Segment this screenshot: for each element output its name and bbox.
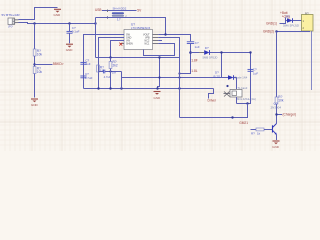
wire GND bus y88.5 [84, 88, 214, 90]
transistor Q1 [272, 125, 274, 132]
wire output net y52.5 to diode D1 [191, 52, 200, 54]
IC U1 right pins 5-8 [153, 35, 159, 44]
junction node (250.5,52.5) [249, 51, 251, 53]
junction node at C1 branch [68, 22, 70, 24]
svg-text:GND: GND [66, 48, 74, 52]
wire x159.5 vertical to GND bus [158, 58, 160, 89]
wire R6 to Q1 base [264, 129, 273, 131]
resistor R1 10k [33, 49, 36, 56]
junction node (179.5,88.5) [178, 87, 180, 89]
IC U1 left pins 1-4 [119, 35, 125, 44]
svg-text:R?: R? [251, 131, 255, 135]
wire base net [251, 129, 257, 131]
wire FB node to R4 [110, 58, 112, 62]
wire R5 to Q1 collector [276, 104, 278, 124]
svg-text:SH+V-DD2: SH+V-DD2 [113, 7, 127, 11]
inductor L2 body [230, 90, 242, 98]
wire y103.5 and x250.5 riser [237, 53, 251, 104]
diode D1 anode lead [199, 52, 204, 54]
svg-text:(Charger): (Charger) [283, 113, 297, 117]
svg-text:1.8L: 1.8L [191, 69, 197, 73]
wire IC pin6 stub [158, 40, 162, 42]
svg-text:2k2: 2k2 [113, 63, 118, 67]
inductor L1 body [112, 12, 124, 14]
IC U1 left pin names [126, 34, 133, 46]
svg-text:1M: 1M [100, 69, 105, 73]
wire x95.5 vertical [95, 18, 97, 58]
wire C1 to ground [69, 33, 71, 43]
wire IC pin5 U-loop [144, 44, 175, 56]
wire zener D2 branch [221, 53, 223, 78]
wire VOUT bus y77.5 [122, 77, 229, 79]
no-ERC cross on IC pin 4 [119, 43, 122, 46]
svg-text:GND: GND [272, 145, 280, 149]
junction node (165.5,34.5) [164, 33, 166, 35]
ground (C1) [66, 44, 73, 47]
junction node (110.5,88.5) [109, 87, 111, 89]
svg-text:4.7uF: 4.7uF [104, 75, 111, 79]
inductor L2 left lead [224, 93, 231, 95]
ground (divider) [31, 99, 38, 102]
wire IC pin3 west then south [111, 41, 125, 58]
svg-text:Driver: Driver [208, 99, 217, 103]
ground (mid GND bus) [154, 92, 161, 95]
svg-text:1uF: 1uF [195, 45, 200, 49]
capacitor C3 4.7uF on x83.5 [80, 75, 86, 77]
wire return loop y117.5 [180, 104, 248, 118]
svg-text:SHDN: SHDN [126, 43, 133, 46]
junction node (159.5,77.5) [158, 76, 160, 78]
wire label stub y73.5 [180, 62, 191, 74]
svg-text:L?: L? [117, 18, 121, 22]
resistor R2 10k [33, 67, 36, 74]
svg-text:5MB 5P5JD: 5MB 5P5JD [203, 55, 218, 59]
svg-text:1.8F: 1.8F [191, 58, 197, 62]
capacitor C1 0.1uF [67, 30, 73, 32]
svg-text:GND: GND [154, 96, 162, 100]
wire D1 cathode east [210, 52, 251, 54]
inductor L1 pin ticks [107, 10, 109, 13]
svg-text:Mini 4x5uH(4m): Mini 4x5uH(4m) [237, 97, 256, 101]
svg-text:1uF: 1uF [253, 71, 258, 75]
junction node (179.5,77.5) [178, 76, 180, 78]
wire input net to C1 [69, 24, 71, 32]
wire battery right-side drop x311.5 [311, 31, 313, 90]
resistor R4 2k2 [109, 62, 112, 69]
junction node (121.5,88.5) [120, 87, 122, 89]
svg-text:NC1: NC1 [145, 43, 150, 46]
resistor R3 1M on x98.5 [97, 65, 100, 72]
wire IC pin7 south long vertical x179.5 [158, 38, 179, 118]
wire VIN rail [102, 10, 137, 12]
junction node (98.5,88.5) [97, 87, 99, 89]
junction node (232.5,117.5) [231, 116, 233, 118]
ground (Q1 emitter) [273, 141, 280, 144]
wire Charger stub [277, 114, 283, 116]
junction node (221.5,52.5) [220, 51, 222, 53]
wire stub to Driver label [209, 89, 214, 99]
inductor L2 polarity cross [224, 92, 230, 97]
svg-text:5BKD>: 5BKD> [53, 62, 64, 66]
junction node at divider tap [33, 22, 35, 24]
capacitor C2 1uF on x83.5 [80, 61, 86, 63]
svg-text:1k: 1k [257, 131, 261, 135]
svg-text:D?: D? [286, 15, 290, 19]
svg-text:4.7uF: 4.7uF [85, 76, 93, 80]
svg-text:GND(2): GND(2) [263, 29, 274, 33]
wire FB node horizontal y57.5 [96, 57, 180, 59]
wire connector pin2 to 5V input net [19, 23, 96, 24]
IC U1 right pin names [143, 34, 150, 46]
svg-text:P?: P? [9, 25, 13, 29]
svg-text:B 2S: B 2S [214, 74, 221, 78]
junction node (276.5,31.5) [275, 30, 277, 32]
wire IC pin2 west then south to GND bus [99, 38, 125, 89]
wire GND(2) net y31.5 [277, 30, 310, 33]
svg-text:10k: 10k [278, 99, 284, 103]
junction node (157.5,88.5) [156, 87, 158, 89]
wire L2 bottom lead [236, 97, 238, 104]
svg-text:10k: 10k [37, 70, 43, 74]
connector P1 [8, 18, 19, 25]
wire D4 cathode to battery B1 [293, 20, 302, 22]
diode D1 [204, 50, 209, 55]
svg-text:GND: GND [54, 13, 62, 17]
wire R1 to divider node [34, 56, 36, 67]
junction node C4 to R4 branch [109, 70, 111, 72]
battery B1 holder body [302, 15, 314, 32]
svg-text:5V BTN+4JR: 5V BTN+4JR [2, 13, 21, 17]
wire divider node to net label [35, 64, 53, 66]
svg-text:D?: D? [205, 46, 209, 50]
junction node (276.5,114.5) [275, 113, 277, 115]
wire IC pin8 east to C5 [158, 35, 190, 42]
junction node divider mid [33, 63, 35, 65]
junction node (179.5,73.5) [178, 72, 180, 74]
wire R4 to GND bus [110, 69, 112, 89]
wire R2 to ground [34, 74, 36, 98]
diode D4 [287, 18, 293, 23]
svg-text:GM21: GM21 [239, 121, 248, 125]
svg-text:10k: 10k [37, 52, 43, 56]
wire SW net from x95.5 to IC pin1R column [96, 18, 166, 35]
junction node (190.5,52.5) [189, 51, 192, 54]
capacitor C5 1uF [187, 41, 194, 43]
diode D3 on VOUT bus [228, 75, 234, 80]
ground (top left) [54, 9, 61, 12]
svg-text:0.1uF: 0.1uF [72, 30, 80, 34]
svg-text:1M: 1M [112, 70, 117, 74]
capacitor C4 series at y71.5 [99, 71, 104, 73]
junction node (227.5,86) [226, 85, 228, 87]
svg-text:1uF: 1uF [85, 62, 90, 66]
junction node (247.5,103.5) [246, 102, 248, 104]
wire x121.5 vertical [121, 72, 123, 89]
svg-text:LTC3525ESC6: LTC3525ESC6 [131, 26, 151, 30]
junction node at x95.5 [94, 22, 96, 24]
svg-text:USB: USB [95, 8, 102, 12]
wire Q1 emitter to ground [276, 134, 278, 140]
op-amp/IC U1 LTC3525 body [124, 30, 153, 50]
svg-text:GND: GND [31, 103, 39, 107]
wire IC pin1 west then south to GND bus [84, 35, 125, 89]
svg-text:5M6 5P(J)D: 5M6 5P(J)D [283, 24, 300, 28]
svg-text:GND(1): GND(1) [266, 22, 277, 26]
svg-text:TL band: TL band [238, 86, 248, 90]
resistor R5 10k [275, 97, 278, 104]
wire collector net x276.5 [276, 32, 278, 98]
junction node at (159.5,57.5) [158, 56, 160, 58]
resistor R6 1k base [256, 128, 264, 131]
wire connector pin1 to ground net [19, 8, 58, 20]
wire GND(1) stub [280, 21, 286, 24]
wire C5 down to label stub [190, 44, 192, 62]
wire input net down to R1 [34, 24, 36, 50]
junction node at (110.5,57.5) [109, 56, 111, 58]
wire battery label stub [286, 18, 288, 21]
svg-text:2N3904: 2N3904 [271, 106, 282, 110]
wire D3 cathode to L2 [234, 77, 237, 79]
capacitor C6 1uF on x250.5 [248, 68, 254, 70]
wire L2 top lead [236, 78, 238, 90]
